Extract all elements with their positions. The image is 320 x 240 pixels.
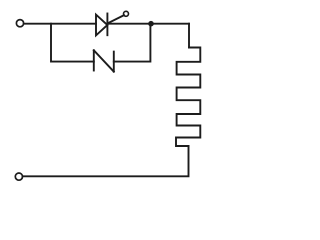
terminal (top-left input) bbox=[16, 20, 23, 27]
wire: top terminal to thyristor anode bbox=[24, 23, 96, 25]
wire: left branch of parallel loop (down) bbox=[51, 24, 94, 62]
thyristor (SCR), upper branch bbox=[96, 14, 124, 36]
diode (old-style N symbol), lower parallel branch bbox=[94, 50, 114, 71]
node (junction dot) bbox=[148, 21, 154, 27]
wire: resistor bottom lead down and left along bottom bbox=[23, 146, 189, 176]
wire: thyristor cathode to top-right corner bbox=[107, 23, 189, 25]
terminal (bottom-left) bbox=[15, 173, 22, 180]
wire: top-right corner down to resistor bbox=[188, 24, 190, 48]
terminal (thyristor gate circle) bbox=[124, 11, 129, 16]
resistor (square meander) bbox=[176, 48, 200, 147]
wire: diode to right branch of loop bbox=[114, 24, 151, 62]
